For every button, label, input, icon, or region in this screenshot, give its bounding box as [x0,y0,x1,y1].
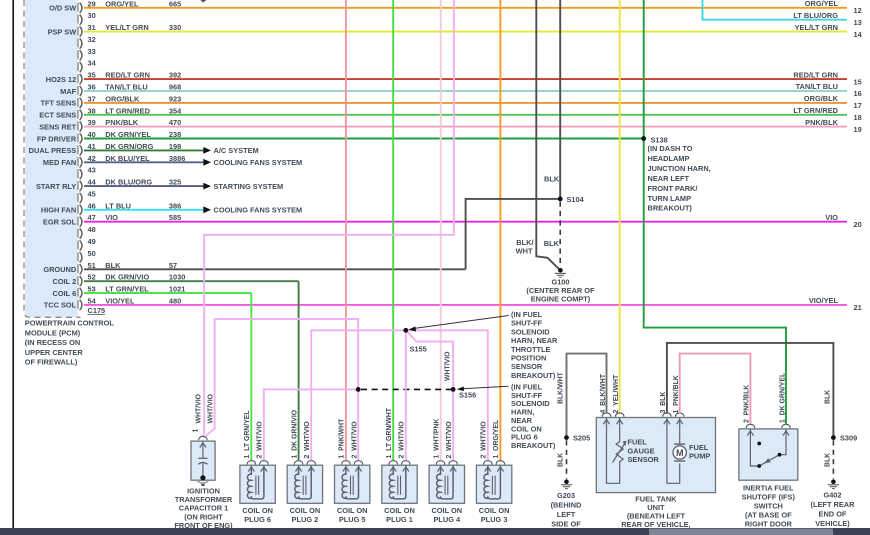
svg-text:32: 32 [88,35,96,44]
svg-text:JUNCTION HARN,: JUNCTION HARN, [648,164,711,173]
PCM pin 53 bracket [78,285,96,299]
PCM pin 48 bracket [78,225,96,239]
net 20 VIO right edge label [825,213,861,229]
wire LT GRN/YEL drop to coil 6 pin 1 [250,293,252,461]
svg-text:G402: G402 [823,490,841,499]
label pin 1 LT GRN/YEL [244,410,251,458]
svg-text:30: 30 [88,11,96,20]
wire VIO/YEL 480 from pin 54 [84,296,847,305]
coil-on-plug PLUG 3 [476,461,511,504]
svg-text:(AT BASE OF: (AT BASE OF [745,510,792,519]
svg-text:20: 20 [854,220,862,229]
ground G402 [811,479,856,527]
svg-text:VIO/YEL: VIO/YEL [809,296,839,305]
wire BLK vertical to ground G100 [536,0,559,269]
svg-text:WHT/VIO: WHT/VIO [207,393,214,423]
PCM pin 35 bracket [78,71,96,85]
PCM pin 46 bracket [78,201,96,215]
wire BLK dashed S205 to G203 [566,440,568,478]
PCM pin 38 bracket [78,106,96,120]
caption PLUG 2 [290,506,321,524]
wire PNK/BLK 470 from pin 39 [84,118,847,127]
svg-text:HO2S 12: HO2S 12 [46,75,76,84]
svg-text:PLUG 2: PLUG 2 [292,515,319,524]
svg-text:FP DRIVER: FP DRIVER [37,134,77,143]
svg-text:TCC SOL: TCC SOL [44,301,77,310]
svg-text:18: 18 [854,113,862,122]
svg-text:TAN/LT BLU: TAN/LT BLU [796,82,838,91]
svg-text:1 WHT/PNK: 1 WHT/PNK [433,419,440,459]
svg-text:45: 45 [88,190,96,199]
svg-text:M: M [676,448,684,458]
page edge line [12,0,14,528]
svg-text:ORG/BLK: ORG/BLK [804,94,839,103]
svg-text:COOLING FANS SYSTEM: COOLING FANS SYSTEM [214,206,303,215]
PCM pin 54 bracket [78,296,97,310]
svg-text:FUEL: FUEL [689,443,709,452]
svg-text:COOLING FANS SYSTEM: COOLING FANS SYSTEM [214,158,303,167]
svg-text:LT BLU/ORG: LT BLU/ORG [793,11,838,20]
svg-text:FUEL: FUEL [628,438,648,447]
svg-text:PLUG 3: PLUG 3 [481,515,508,524]
label pin 1 DK GRN/VIO [291,409,298,458]
svg-text:GROUND: GROUND [43,265,77,274]
wire LT BLU/ORG to net 13 [703,0,848,20]
caption capacitor [174,487,233,530]
svg-text:(IN DASH TO: (IN DASH TO [648,144,693,153]
splice S156 [451,387,477,399]
coil-on-plug PLUG 5 [335,461,370,504]
wire DK GRN/YEL 238 from pin 40 [84,130,644,139]
arrow to COOLING FANS SYSTEM [203,158,302,167]
splice S205 [564,434,590,443]
PCM connector C175 panel [25,0,78,317]
PCM pin 33 bracket [78,47,96,61]
svg-text:S156: S156 [459,390,476,399]
svg-text:PLUG 5: PLUG 5 [339,515,366,524]
wire ORG/YEL 665 from pin 29 [84,0,847,8]
svg-text:14: 14 [854,30,863,39]
svg-text:BLK/WHT: BLK/WHT [558,371,565,404]
svg-text:1 LT GRN/YEL: 1 LT GRN/YEL [244,410,251,458]
svg-text:WHT/VIO: WHT/VIO [445,351,452,381]
svg-text:48: 48 [88,225,96,234]
svg-text:16: 16 [854,89,862,98]
svg-text:END OF: END OF [819,509,847,518]
splice S138 [641,135,667,144]
fuel pump motor [667,418,687,483]
svg-text:SHUTOFF (IFS): SHUTOFF (IFS) [742,492,796,501]
wire BLK dashed S104 to G100 [559,202,561,267]
coil-on-plug PLUG 4 [429,461,464,504]
label fuel tank pin 1 PNK/BLK [673,375,680,413]
caption PLUG 5 [337,506,368,524]
svg-text:COIL ON: COIL ON [384,506,415,515]
note S155 location [511,310,558,380]
svg-text:SENSOR: SENSOR [628,455,660,464]
label pin 2 WHT/VIO [446,421,453,459]
label capacitor pin 1 [192,429,199,433]
svg-text:MAF: MAF [60,87,76,96]
wire DK GRN/YEL vertical through S138 to IFS switch pin 1 [644,0,786,425]
svg-text:ORG/YEL: ORG/YEL [805,0,839,8]
wire WHT/VIO coil 2 pin 2 riser to S155 and coil 3 pin 2 [311,330,488,461]
label pin 2 WHT/VIO [257,421,264,459]
svg-text:43: 43 [88,166,96,175]
wire RED/LT GRN 392 from pin 35 [84,71,847,80]
leader arrow to S156 [457,386,509,391]
PCM caption [25,319,115,367]
coil-on-plug PLUG 6 [240,461,275,504]
label IFS pin 2 PNK/BLK [744,385,751,423]
leader arrow to S155 [409,316,509,332]
PCM pin 51 bracket [78,261,96,275]
wire WHT/VIO S155 down to coil 1 pin 2 [405,330,407,461]
svg-text:S205: S205 [573,434,590,443]
label fuel pump [689,443,710,461]
label pin 2 WHT/VIO [481,421,488,459]
fuel tank pin entry [663,413,672,424]
svg-text:YEL/LT GRN: YEL/LT GRN [795,23,838,32]
bottom scrollbar track [0,528,870,535]
svg-text:COIL 2: COIL 2 [53,277,77,286]
ground G203 [551,479,582,528]
svg-text:13: 13 [854,18,862,27]
arrow to COOLING FANS SYSTEM [203,206,302,215]
caption fuel tank unit [621,495,690,530]
svg-text:LT GRN/RED: LT GRN/RED [793,106,838,115]
svg-text:TURN LAMP: TURN LAMP [648,194,692,203]
svg-text:(IN FUEL: (IN FUEL [511,310,543,319]
svg-text:2 YEL/WHT: 2 YEL/WHT [613,374,620,413]
svg-text:OF FIREWALL): OF FIREWALL) [25,358,78,367]
fuel tank pin entry [602,413,611,424]
svg-text:STARTING SYSTEM: STARTING SYSTEM [214,182,284,191]
net 12 ORG/YEL right edge label [805,0,862,15]
svg-text:17: 17 [854,101,862,110]
fuel tank pin entry [615,413,624,424]
svg-text:BLK: BLK [558,453,565,467]
label pin 2 WHT/VIO [351,421,358,459]
PCM pin 37 bracket [78,94,96,108]
IFS switch contacts [750,429,786,468]
svg-text:2 WHT/VIO: 2 WHT/VIO [446,421,453,459]
label IFS pin 1 DK GRN/YEL [779,373,786,423]
label pin 1 WHT/PNK [433,419,440,459]
svg-text:MED FAN: MED FAN [43,158,76,167]
svg-text:A/C SYSTEM: A/C SYSTEM [214,146,259,155]
svg-text:(LEFT REAR: (LEFT REAR [811,500,856,509]
svg-text:UPPER CENTER: UPPER CENTER [25,348,84,357]
wire YEL/WHT riser to fuel tank pin 2 [619,0,621,414]
wire WHT/VIO coil 6 pin 2 to junction [264,389,358,460]
svg-text:SWITCH: SWITCH [754,501,783,510]
svg-text:COIL ON: COIL ON [431,506,462,515]
label pin 2 WHT/VIO [399,421,406,459]
bottom scrollbar thumb [649,529,833,535]
net 19 PNK/BLK right edge label [805,118,862,134]
svg-text:HEADLAMP: HEADLAMP [648,154,690,163]
caption PLUG 6 [242,506,273,524]
PCM pin 44 bracket [78,178,97,192]
fuel gauge sensor resistor [607,418,627,483]
svg-text:S104: S104 [567,195,585,204]
caption PLUG 1 [384,506,415,524]
svg-text:PUMP: PUMP [689,452,710,461]
note S138 location [648,144,711,213]
note S156 location [511,383,556,450]
PCM pin 39 bracket [78,118,96,132]
svg-text:BLK: BLK [825,453,832,467]
wire LT GRN/YEL 1021 from pin 53 [84,285,251,294]
net 15 RED/LT GRN right edge label [793,70,861,86]
caption IFS switch [742,483,796,528]
svg-text:SIDE OF: SIDE OF [551,519,581,528]
wire DK BLU/ORG 325 from pin 44 [84,178,203,187]
svg-text:HARN, NEAR: HARN, NEAR [511,336,558,345]
svg-text:THROTTLE: THROTTLE [511,345,550,354]
wire ORG/BLK 923 from pin 37 [84,94,847,103]
wire LT BLU 386 from pin 46 [84,201,203,210]
splice S155 [403,328,426,354]
wire LT GRN/RED 354 from pin 38 [84,106,847,115]
svg-text:NEAR LEFT: NEAR LEFT [648,174,690,183]
label pin 1 ORG/YEL [493,420,500,459]
svg-text:INERTIA FUEL: INERTIA FUEL [743,483,794,492]
PCM pin 45 bracket [78,190,96,204]
PCM pin 47 bracket [78,213,96,227]
svg-text:SENSOR: SENSOR [511,362,543,371]
wire VIO 585 from pin 47 [84,213,847,222]
caption PLUG 4 [431,506,462,524]
PCM pin 52 bracket [78,273,96,287]
label pin 1 LT GRN/WHT [386,407,393,458]
label fuel tank pin 3 BLK [660,392,667,414]
wire PNK/BLK fuel tank pin 1 to IFS pin 2 [680,354,751,425]
svg-text:S138: S138 [651,135,668,144]
svg-text:REAR OF VEHICLE,: REAR OF VEHICLE, [621,520,690,529]
wire WHT/VIO riser from top to capacitor [203,0,454,436]
wire TAN/LT BLU 968 from pin 36 [84,83,847,92]
svg-text:ECT SENS: ECT SENS [39,111,76,120]
PCM pin 34 bracket [78,59,97,73]
svg-text:PLUG 4: PLUG 4 [433,515,461,524]
svg-text:1 PNK/WHT: 1 PNK/WHT [339,418,346,459]
svg-text:BREAKOUT): BREAKOUT) [648,204,693,213]
svg-text:RIGHT DOOR: RIGHT DOOR [745,519,793,528]
fuel tank pin entry [675,413,684,424]
svg-text:BREAKOUT): BREAKOUT) [511,441,556,450]
svg-text:2 WHT/VIO: 2 WHT/VIO [304,421,311,459]
svg-text:SENS RET: SENS RET [39,122,76,131]
IFS pin entry [782,424,791,435]
wire BLK pin 51 riser to S104 [466,199,561,269]
net 14 YEL/LT GRN right edge label [795,23,863,39]
svg-text:1: 1 [192,429,199,433]
PCM pin 41 bracket [78,142,96,156]
arrow to STARTING SYSTEM [203,182,283,191]
coil-on-plug PLUG 1 [382,461,417,504]
svg-text:MODULE (PCM): MODULE (PCM) [25,328,81,337]
svg-text:POWERTRAIN CONTROL: POWERTRAIN CONTROL [25,319,115,328]
wire DK GRN/VIO drop to coil 2 pin 1 [298,281,300,461]
svg-text:BLK: BLK [544,175,560,184]
net 13 LT BLU/ORG right edge label [793,11,861,27]
wire WHT/VIO capacitor to junction bus [206,319,359,436]
ground G100 [526,268,595,304]
wire DK BLU/YEL 3886 from pin 42 [84,154,203,163]
svg-text:15: 15 [854,77,862,86]
svg-text:RED/LT GRN: RED/LT GRN [793,70,838,79]
svg-text:COIL ON: COIL ON [479,506,510,515]
svg-text:EGR SOL: EGR SOL [43,218,77,227]
net 21 VIO/YEL right edge label [809,296,862,312]
svg-text:BREAKOUT): BREAKOUT) [511,371,556,380]
wire LT GRN/WHT riser to coil 1 pin 1 [392,0,394,461]
svg-text:PLUG 6: PLUG 6 [244,515,271,524]
PCM pin 50 bracket [78,249,96,263]
svg-text:SOLENOID: SOLENOID [511,327,550,336]
junction dot WHT/VIO bus [356,387,361,392]
svg-text:1 DK GRN/YEL: 1 DK GRN/YEL [779,373,786,423]
svg-text:O/D SW: O/D SW [49,4,76,13]
svg-text:WHT: WHT [516,247,533,256]
svg-text:(BEHIND: (BEHIND [551,500,582,509]
svg-text:START RLY: START RLY [36,182,76,191]
label pin 2 WHT/VIO [304,421,311,459]
wire WHT/PNK riser to coil 4 pin 1 [440,0,442,461]
wire ORG/YEL riser to coil 3 pin 1 [499,0,501,461]
splice S309 [831,434,857,443]
svg-text:49: 49 [88,237,96,246]
svg-text:S309: S309 [840,434,857,443]
wire dashed bus to S156 [361,388,453,390]
net 17 ORG/BLK right edge label [804,94,862,110]
svg-text:PLUG 1: PLUG 1 [386,515,413,524]
svg-text:33: 33 [88,47,96,56]
wire YEL/LT GRN 330 from pin 31 [84,23,847,32]
svg-text:BLK: BLK [544,239,560,248]
PCM pin 31 bracket [78,23,96,37]
cropped arrowhead fragment top [200,0,206,3]
svg-text:FRONT PARK/: FRONT PARK/ [648,184,698,193]
svg-text:LEFT: LEFT [557,510,576,519]
svg-text:(IN RECESS ON: (IN RECESS ON [25,338,80,347]
svg-text:S155: S155 [410,345,427,354]
svg-text:PSP SW: PSP SW [48,27,77,36]
splice S104 [558,195,585,204]
svg-text:ENGINE COMPT): ENGINE COMPT) [531,295,591,304]
svg-text:C175: C175 [88,306,106,315]
svg-text:WHT/VIO: WHT/VIO [195,393,202,423]
svg-text:GAUGE: GAUGE [628,446,655,455]
PCM pin 29 bracket [78,0,96,13]
svg-text:2 WHT/VIO: 2 WHT/VIO [351,421,358,459]
wire WHT/VIO S155 to S156 [406,330,453,389]
IFS pin entry [746,424,755,435]
wire BLK fuel tank pin 3 to S309 [667,343,834,436]
wire DK GRN/VIO 1030 from pin 52 [84,273,299,282]
PCM pin 30 bracket [78,11,96,25]
svg-text:1 LT GRN/WHT: 1 LT GRN/WHT [386,407,393,458]
svg-text:PNK/BLK: PNK/BLK [805,118,839,127]
svg-text:COIL 6: COIL 6 [53,289,77,298]
wire WHT/VIO junction to coil 5 pin 2 [357,389,359,460]
IFS inertia fuel shutoff switch box [739,429,798,480]
svg-text:COIL ON: COIL ON [337,506,368,515]
label pin 1 PNK/WHT [339,418,346,459]
net 16 TAN/LT BLU right edge label [796,82,862,98]
wire BLK 57 from pin 51 [84,261,466,270]
svg-text:21: 21 [854,303,862,312]
arrow to A/C SYSTEM [203,146,258,155]
PCM pin 49 bracket [78,237,96,251]
capacitor ignition transformer capacitor 1 [191,436,215,486]
label fuel tank pin 2 YEL/WHT [613,374,620,413]
wire DK GRN/ORG 198 from pin 41 [84,142,203,151]
svg-text:34: 34 [88,59,97,68]
svg-text:COIL ON: COIL ON [242,506,273,515]
svg-text:2 WHT/VIO: 2 WHT/VIO [257,421,264,459]
svg-text:1 ORG/YEL: 1 ORG/YEL [493,420,500,459]
wire WHT/VIO S156 to coil 4 pin 2 [452,389,454,460]
svg-text:12: 12 [854,6,862,15]
svg-text:COIL ON: COIL ON [290,506,321,515]
svg-text:POSITION: POSITION [511,354,546,363]
svg-text:50: 50 [88,249,96,258]
PCM pin 32 bracket [78,35,96,49]
svg-text:BLK: BLK [825,390,832,404]
PCM pin 40 bracket [78,130,96,144]
svg-text:2 WHT/VIO: 2 WHT/VIO [399,421,406,459]
svg-text:TFT SENS: TFT SENS [40,99,76,108]
PCM connector dashed outline [24,0,81,317]
wire BLK/WHT fuel tank pin 4 to S205 [567,354,607,436]
svg-text:DUAL PRESS: DUAL PRESS [29,146,77,155]
wire BLK dashed S309 to G402 [832,440,834,478]
svg-text:VIO: VIO [825,213,838,222]
label fuel gauge sensor [628,438,660,465]
label BLK/WHT [516,238,534,256]
wire PNK/WHT riser to coil 5 pin 1 [345,0,347,461]
coil-on-plug PLUG 2 [287,461,322,504]
svg-text:2 PNK/BLK: 2 PNK/BLK [744,385,751,423]
PCM pin 43 bracket [78,166,96,180]
PCM pin 42 bracket [78,154,96,168]
svg-text:G203: G203 [557,491,575,500]
wire BLK from top to S104 [559,0,561,199]
net 18 LT GRN/RED right edge label [793,106,861,122]
svg-text:2 WHT/VIO: 2 WHT/VIO [481,421,488,459]
svg-text:VEHICLE): VEHICLE) [815,519,850,528]
caption PLUG 3 [479,506,510,524]
svg-text:19: 19 [854,125,862,134]
label fuel tank pin 4 BLK/WHT [600,373,607,413]
svg-text:HIGH FAN: HIGH FAN [41,206,76,215]
PCM pin 36 bracket [78,83,96,97]
svg-text:SHUT-FF: SHUT-FF [511,319,543,328]
fuel tank unit box [596,418,715,493]
svg-text:1 DK GRN/VIO: 1 DK GRN/VIO [291,409,298,458]
